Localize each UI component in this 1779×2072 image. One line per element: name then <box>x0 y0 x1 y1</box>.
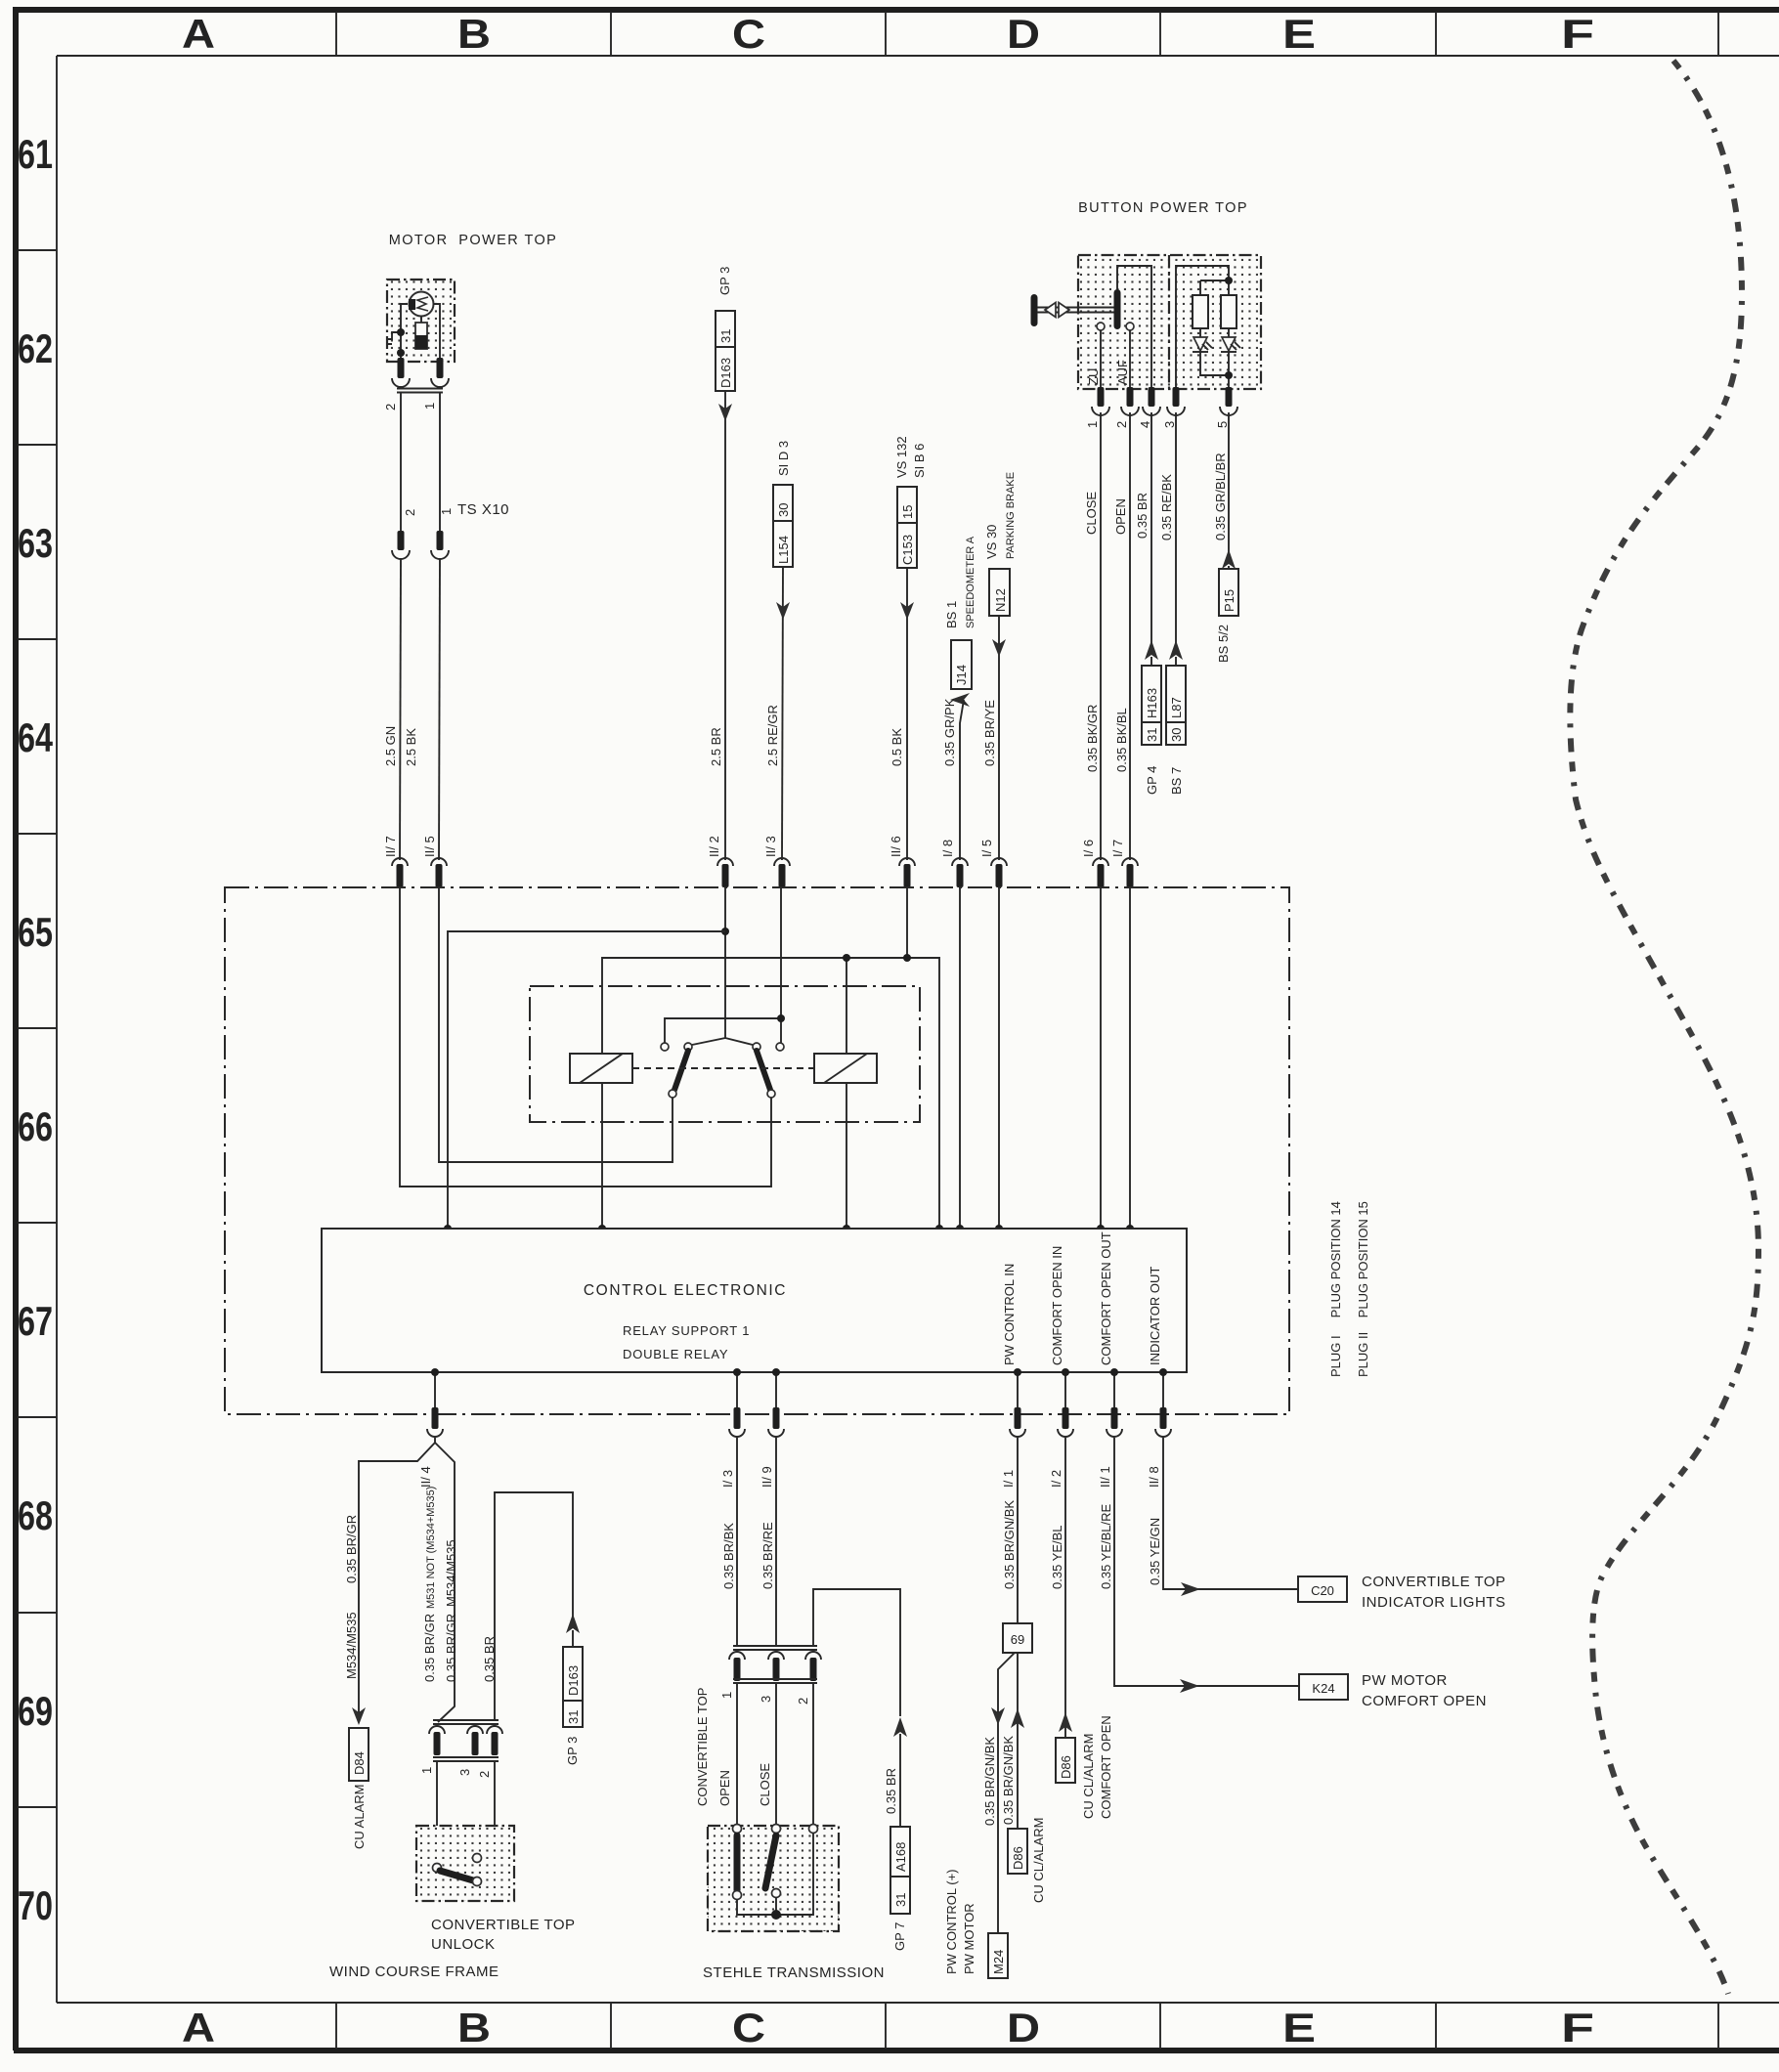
svg-text:68: 68 <box>18 1492 53 1538</box>
unlock cup 2 <box>487 1726 502 1734</box>
relay linkage dashed <box>632 1067 814 1069</box>
connector I/6 cup <box>1093 858 1108 866</box>
svg-text:BS 7: BS 7 <box>1169 767 1184 795</box>
resistor R2 <box>1221 295 1237 328</box>
wire unlock pin2 riser to D163 <box>495 1492 573 1720</box>
stehle transmission switch box <box>708 1826 839 1931</box>
svg-text:2: 2 <box>1114 421 1129 428</box>
LED D2 <box>1222 337 1236 351</box>
button contact AUF circle <box>1126 323 1134 330</box>
motor thermal switch contact <box>387 332 401 344</box>
svg-text:PARKING BRAKE: PARKING BRAKE <box>1005 472 1017 559</box>
svg-text:3: 3 <box>759 1696 773 1703</box>
wire R1 to LED1 <box>1199 328 1201 337</box>
arrow up to P15 <box>1222 549 1236 569</box>
wire II/9 down <box>775 1438 777 1646</box>
svg-text:0.35 GR/BL/BR: 0.35 GR/BL/BR <box>1213 453 1228 540</box>
connector II/2 cup <box>717 858 733 866</box>
stehle blade 1 <box>734 1835 741 1890</box>
svg-text:3: 3 <box>1162 421 1177 428</box>
relay coil K2 <box>814 1054 877 1083</box>
stehle plug bus lower <box>733 1679 817 1683</box>
svg-text:I/ 5: I/ 5 <box>979 840 994 857</box>
TS X10 pin right <box>437 531 444 550</box>
relay blade left <box>674 1051 688 1090</box>
motor M1 symbol <box>410 292 434 317</box>
wire II/2 down to switch commons <box>692 887 753 1045</box>
svg-text:GP 7: GP 7 <box>892 1922 907 1951</box>
svg-text:1: 1 <box>1085 421 1100 428</box>
junction dot I/3 <box>733 1368 741 1376</box>
svg-text:D: D <box>1007 2005 1040 2050</box>
stehle contact circle 1 <box>733 1825 742 1834</box>
svg-text:A: A <box>182 11 215 57</box>
connector box D84 <box>349 1728 369 1781</box>
relay coil K1 <box>570 1054 632 1083</box>
junction dot at electronics top left <box>444 1225 452 1232</box>
led bottom bus <box>1200 352 1229 389</box>
button pin 5 cup <box>1220 407 1237 415</box>
connector II/8 pin <box>1160 1407 1167 1429</box>
wire 2.5 GN down to II/7 <box>400 559 401 860</box>
svg-text:II/ 6: II/ 6 <box>889 836 903 857</box>
wire AUF contact to pin 2 <box>1129 330 1131 389</box>
svg-text:2.5 BK: 2.5 BK <box>404 728 418 766</box>
svg-text:GP 3: GP 3 <box>717 267 732 295</box>
stehle bottom junction dot <box>771 1910 781 1920</box>
wire I/5 to electronics <box>998 887 1000 1229</box>
svg-text:67: 67 <box>18 1298 53 1344</box>
svg-text:RELAY SUPPORT 1: RELAY SUPPORT 1 <box>623 1323 750 1338</box>
svg-text:PLUG II PLUG POSITION 15: PLUG II PLUG POSITION 15 <box>1356 1201 1370 1377</box>
svg-text:2: 2 <box>796 1698 810 1705</box>
svg-text:31: 31 <box>566 1710 581 1724</box>
svg-text:II/ 3: II/ 3 <box>763 836 778 857</box>
wire unlock pin2 into switch <box>481 1761 495 1858</box>
splice box 69 <box>1003 1623 1032 1653</box>
connector II/4 pin <box>432 1407 439 1429</box>
connector box K24 <box>1299 1674 1348 1700</box>
svg-text:WIND COURSE FRAME: WIND COURSE FRAME <box>329 1964 499 1980</box>
svg-text:1: 1 <box>439 508 454 515</box>
connector box L154/30 <box>773 485 793 567</box>
svg-text:0.35 YE/BL/RE: 0.35 YE/BL/RE <box>1099 1503 1113 1589</box>
svg-text:31: 31 <box>718 329 733 343</box>
wire K1 bottom to electronics <box>601 1083 603 1229</box>
wire R2 to LED2 <box>1228 328 1230 337</box>
svg-text:3: 3 <box>457 1769 472 1776</box>
button pin 4 <box>1149 387 1155 407</box>
arrow right on K24 wire <box>1180 1679 1199 1693</box>
wire stehle pin3 into switch <box>775 1683 777 1826</box>
wire II/1 to K24 <box>1114 1438 1299 1686</box>
wire ZU contact to pin 1 <box>1100 330 1102 389</box>
arrow up to L87 <box>1169 640 1183 660</box>
relay contact circle a2 <box>684 1043 692 1051</box>
svg-text:AUF: AUF <box>1115 360 1130 385</box>
convertible top unlock switch box <box>416 1826 514 1901</box>
wire I/1 out <box>1017 1372 1019 1414</box>
svg-text:B: B <box>457 11 491 57</box>
junction dot I/6 <box>1097 1225 1105 1232</box>
svg-text:OPEN: OPEN <box>717 1770 732 1806</box>
svg-text:D84: D84 <box>352 1751 367 1775</box>
wire motor 2 to TS X10 <box>400 392 402 531</box>
junction dot II/8 <box>1159 1368 1167 1376</box>
svg-text:II/ 7: II/ 7 <box>383 836 398 857</box>
svg-text:0.35 BR/YE: 0.35 BR/YE <box>982 700 997 766</box>
wire II/4 split right branch <box>435 1443 455 1722</box>
connector II/9 cup <box>768 1429 784 1437</box>
motor pin 2 cup <box>392 378 410 387</box>
junction dot II/1 <box>1110 1368 1118 1376</box>
led top bus <box>1200 281 1229 295</box>
connector II/7 pin <box>397 864 404 887</box>
wire contact bar to pin 4 <box>1117 266 1151 389</box>
svg-text:VS 30: VS 30 <box>984 525 999 559</box>
svg-text:DOUBLE RELAY: DOUBLE RELAY <box>623 1347 728 1361</box>
svg-text:SI B 6: SI B 6 <box>912 444 927 478</box>
connector II/1 pin <box>1111 1407 1118 1429</box>
footer cell dividers <box>336 2003 1718 2049</box>
stehle contact circle 2 <box>809 1825 818 1834</box>
resistor R1 <box>1193 295 1208 328</box>
connector I/3 cup <box>729 1429 745 1437</box>
stehle contact circle mid <box>772 1889 781 1898</box>
svg-text:F: F <box>1561 2005 1594 2050</box>
junction dot I/7 <box>1126 1225 1134 1232</box>
svg-text:H163: H163 <box>1145 688 1159 718</box>
svg-text:31: 31 <box>1145 728 1159 742</box>
svg-text:CONVERTIBLE TOP: CONVERTIBLE TOP <box>695 1688 710 1806</box>
wire I/3 down <box>736 1438 738 1646</box>
LED D1 <box>1193 337 1207 351</box>
svg-text:4: 4 <box>1138 421 1152 428</box>
motor junction dot lower <box>397 349 405 357</box>
svg-text:0.35 BR/GN/BK: 0.35 BR/GN/BK <box>982 1737 997 1826</box>
connector II/7 cup <box>392 858 408 866</box>
junction dot II/4 <box>431 1368 439 1376</box>
junction dot II/2 <box>721 928 729 935</box>
motor internal wires <box>401 304 440 360</box>
junction dot led top <box>1225 277 1233 284</box>
button power top component box <box>1078 255 1261 389</box>
wire II/5 to left blade lower contact <box>439 887 673 1162</box>
connector I/8 cup <box>952 858 968 866</box>
svg-text:E: E <box>1282 2005 1316 2050</box>
wire stehle pin1 into switch <box>736 1683 738 1826</box>
svg-text:INDICATOR LIGHTS: INDICATOR LIGHTS <box>1362 1594 1505 1611</box>
svg-text:0.35 BK/GR: 0.35 BK/GR <box>1085 705 1100 772</box>
svg-text:TS X10: TS X10 <box>457 501 509 518</box>
svg-text:I/ 3: I/ 3 <box>720 1470 735 1488</box>
wire II/7 to right blade lower contact <box>400 887 771 1187</box>
wire pin3 to L87 <box>1175 412 1177 643</box>
svg-text:0.35 BR: 0.35 BR <box>1135 493 1150 539</box>
motor pin 1 <box>437 358 444 378</box>
svg-text:II/ 4: II/ 4 <box>418 1466 433 1488</box>
svg-text:PLUG I PLUG POSITION 14: PLUG I PLUG POSITION 14 <box>1328 1201 1343 1377</box>
junction dot I/8 <box>956 1225 964 1232</box>
svg-text:30: 30 <box>1169 728 1184 742</box>
unlock plug bus upper <box>433 1720 499 1724</box>
wire motor 1 to TS X10 <box>439 392 441 531</box>
svg-text:0.35 GR/PK: 0.35 GR/PK <box>942 698 957 766</box>
svg-text:D163: D163 <box>566 1665 581 1696</box>
button pin 2 <box>1127 387 1134 407</box>
svg-text:0.35 BR: 0.35 BR <box>884 1768 898 1814</box>
relay blade right <box>757 1051 770 1090</box>
svg-text:II/ 8: II/ 8 <box>1147 1466 1161 1488</box>
svg-text:CLOSE: CLOSE <box>1084 492 1099 535</box>
connector II/5 cup <box>431 858 447 866</box>
connector I/3 pin <box>734 1407 741 1429</box>
wire C153 to II/6 <box>906 568 908 860</box>
tear-off edge curve <box>1570 61 1758 1994</box>
svg-text:1: 1 <box>422 403 437 410</box>
svg-text:CU CL/ALARM: CU CL/ALARM <box>1081 1734 1096 1819</box>
stehle cup 3 <box>768 1652 784 1660</box>
button pin 1 <box>1098 387 1105 407</box>
button contact ZU circle <box>1097 323 1105 330</box>
junction dot II/3 <box>777 1014 785 1022</box>
wire I/2 to D86 <box>1064 1438 1066 1738</box>
svg-text:PW CONTROL IN: PW CONTROL IN <box>1002 1264 1017 1365</box>
svg-text:PW MOTOR: PW MOTOR <box>962 1903 976 1974</box>
button box divider <box>1168 255 1170 389</box>
connector box C153/15 <box>897 487 917 568</box>
TS X10 cup left <box>392 550 410 559</box>
relay contact circle b1 <box>753 1043 760 1051</box>
wire A168 riser <box>813 1589 900 1716</box>
unlock cup 1 <box>429 1726 445 1734</box>
junction dot K1 bottom <box>598 1225 606 1232</box>
connector I/7 cup <box>1122 858 1138 866</box>
unlock plug bus lower <box>433 1757 499 1761</box>
motor plug double line <box>397 389 443 393</box>
connector II/8 cup <box>1155 1429 1171 1437</box>
svg-text:C: C <box>732 11 765 57</box>
svg-text:MOTOR POWER TOP: MOTOR POWER TOP <box>389 233 558 248</box>
wire unlock pin1 into switch <box>436 1761 438 1865</box>
header cell dividers <box>336 12 1718 56</box>
unlock pin 3 <box>472 1732 479 1755</box>
arrow down on D163 wire <box>718 404 732 421</box>
TS X10 pin left <box>398 531 405 550</box>
unlock pin 2 <box>492 1732 499 1755</box>
unlock switch contact 1 circle <box>433 1864 442 1873</box>
connector II/4 cup <box>427 1429 443 1437</box>
relay support outer box <box>225 887 1289 1414</box>
arrow up on D86 wire <box>1011 1708 1024 1728</box>
svg-text:D86: D86 <box>1011 1846 1025 1870</box>
svg-text:CONVERTIBLE TOP: CONVERTIBLE TOP <box>431 1917 576 1933</box>
wire I/8 to electronics <box>959 887 961 1229</box>
svg-text:GP 3: GP 3 <box>565 1737 580 1765</box>
wire K2 top <box>846 958 847 1054</box>
svg-text:66: 66 <box>18 1103 53 1149</box>
svg-text:M534/M535: M534/M535 <box>344 1612 359 1679</box>
wire II/3 to outer contacts <box>665 887 781 1043</box>
unlock cup 3 <box>467 1726 483 1734</box>
svg-text:I/ 6: I/ 6 <box>1081 840 1096 857</box>
svg-text:2: 2 <box>477 1771 492 1778</box>
svg-text:P15: P15 <box>1222 589 1237 612</box>
coil top bus <box>602 958 939 1229</box>
svg-text:31: 31 <box>893 1893 908 1907</box>
svg-text:2: 2 <box>383 404 398 410</box>
svg-text:65: 65 <box>18 909 53 955</box>
connector II/2 pin <box>722 864 729 887</box>
svg-text:BS 5/2: BS 5/2 <box>1216 625 1231 663</box>
motor power top component box <box>387 280 455 362</box>
svg-text:2.5 GN: 2.5 GN <box>383 726 398 766</box>
svg-text:0.35 YE/BL: 0.35 YE/BL <box>1050 1525 1064 1589</box>
junction dot I/5 <box>995 1225 1003 1232</box>
svg-text:L154: L154 <box>776 536 791 564</box>
svg-text:COMFORT OPEN: COMFORT OPEN <box>1362 1693 1487 1709</box>
stehle contact circle 3 <box>772 1825 781 1834</box>
arrow up on I/2 wire <box>1059 1712 1072 1732</box>
svg-text:C: C <box>732 2005 765 2050</box>
wire pin 3 to led top <box>1176 266 1229 389</box>
svg-text:CU CL/ALARM: CU CL/ALARM <box>1031 1818 1046 1903</box>
connector box N12 <box>989 569 1010 616</box>
wire II/1 out <box>1113 1372 1115 1414</box>
connector box D163/31 top <box>716 311 735 391</box>
row dividers <box>18 250 57 1807</box>
svg-text:C20: C20 <box>1311 1583 1334 1598</box>
svg-text:0.35 BR/BK: 0.35 BR/BK <box>721 1523 736 1589</box>
junction dot II/6 <box>903 954 911 962</box>
svg-text:0.35 YE/GN: 0.35 YE/GN <box>1148 1518 1162 1585</box>
svg-text:69: 69 <box>18 1688 53 1734</box>
svg-text:L87: L87 <box>1169 697 1184 718</box>
relay blade right lower circle <box>767 1090 775 1098</box>
svg-text:69: 69 <box>1011 1632 1024 1647</box>
connector box D86 upper <box>1056 1738 1075 1783</box>
button pin 1 cup <box>1092 407 1109 415</box>
connector box J14 <box>951 640 972 689</box>
wire pin4 to H163 <box>1150 412 1152 643</box>
svg-text:M531 NOT (M534+M535): M531 NOT (M534+M535) <box>425 1487 437 1609</box>
wire 69 to D86 <box>1017 1653 1019 1829</box>
button pin 3 <box>1173 387 1180 407</box>
svg-text:UNLOCK: UNLOCK <box>431 1936 496 1953</box>
svg-text:BS 1: BS 1 <box>944 601 959 628</box>
wire 2.5 BK down to II/5 <box>439 559 440 860</box>
svg-text:K24: K24 <box>1312 1681 1334 1696</box>
row label column line <box>56 56 58 2003</box>
relay contact circle b2 <box>776 1043 784 1051</box>
connector box D163/31 bottom <box>563 1647 583 1727</box>
wire L154 to II/3 <box>782 567 783 860</box>
junction dot I/2 <box>1062 1368 1069 1376</box>
svg-text:M534/M535: M534/M535 <box>444 1539 458 1607</box>
connector box A168/31 <box>890 1827 910 1914</box>
wire I/3 out <box>736 1372 738 1414</box>
wire OPEN pin2 to I/7 <box>1129 412 1131 860</box>
connector I/1 cup <box>1010 1429 1025 1437</box>
arrow down on L154 wire <box>776 602 790 620</box>
wire II/9 out <box>775 1372 777 1414</box>
svg-text:1: 1 <box>719 1692 734 1699</box>
svg-text:0.5 BK: 0.5 BK <box>889 728 904 766</box>
svg-text:I/ 8: I/ 8 <box>940 840 955 857</box>
svg-text:SI D 3: SI D 3 <box>776 441 791 476</box>
stehle cup 1 <box>729 1652 745 1660</box>
button pin 5 <box>1226 387 1233 407</box>
connector box P15 <box>1219 569 1238 616</box>
button pin 4 cup <box>1143 407 1160 415</box>
svg-text:C153: C153 <box>900 535 915 565</box>
svg-text:0.35 BK/BL: 0.35 BK/BL <box>1114 708 1129 772</box>
wire I/2 out <box>1064 1372 1066 1414</box>
connector I/2 pin <box>1063 1407 1069 1429</box>
svg-text:SPEEDOMETER A: SPEEDOMETER A <box>965 536 976 628</box>
connector box L87/30 <box>1166 666 1186 745</box>
svg-text:COMFORT OPEN OUT: COMFORT OPEN OUT <box>1099 1231 1113 1365</box>
connector I/5 cup <box>991 858 1007 866</box>
svg-text:15: 15 <box>900 505 915 519</box>
arrow down on N12 wire <box>992 639 1006 657</box>
relay blade left lower circle <box>669 1090 676 1098</box>
svg-text:F: F <box>1561 11 1594 57</box>
connector II/6 pin <box>904 864 911 887</box>
svg-text:E: E <box>1282 11 1316 57</box>
connector I/5 pin <box>996 864 1003 887</box>
stehle blade1 tip circle <box>733 1891 742 1900</box>
unlock switch blade <box>440 1871 473 1880</box>
svg-text:1: 1 <box>419 1767 434 1774</box>
connector I/7 pin <box>1127 864 1134 887</box>
svg-text:I/ 2: I/ 2 <box>1049 1470 1063 1488</box>
svg-text:OPEN: OPEN <box>1113 498 1128 535</box>
svg-text:I/ 1: I/ 1 <box>1001 1470 1016 1488</box>
wire stehle pin2 into switch <box>812 1683 814 1826</box>
arrow up to D163 bottom <box>566 1614 580 1633</box>
junction dot I/1 <box>1014 1368 1021 1376</box>
connector I/6 pin <box>1098 864 1105 887</box>
wire II/8 to C20 <box>1163 1438 1298 1589</box>
junction dot K2 top <box>843 954 850 962</box>
unlock pin 1 <box>434 1732 441 1755</box>
svg-text:CU ALARM: CU ALARM <box>352 1785 367 1849</box>
junction dot coil bus right <box>935 1225 943 1232</box>
arrow up to A168 <box>893 1717 907 1737</box>
svg-text:2.5 RE/GR: 2.5 RE/GR <box>765 705 780 766</box>
svg-text:M24: M24 <box>991 1950 1006 1974</box>
svg-text:BUTTON POWER TOP: BUTTON POWER TOP <box>1078 200 1248 216</box>
svg-text:D86: D86 <box>1059 1755 1073 1779</box>
connector box C20 <box>1298 1576 1347 1602</box>
svg-text:II/ 1: II/ 1 <box>1098 1466 1112 1488</box>
stehle blade 3 <box>765 1835 776 1888</box>
connector II/9 pin <box>773 1407 780 1429</box>
svg-text:0.35 BR/GN/BK: 0.35 BR/GN/BK <box>1001 1736 1016 1825</box>
stehle pin 1 <box>734 1658 741 1681</box>
svg-text:J14: J14 <box>954 665 969 685</box>
footer row separator line <box>57 2002 1779 2004</box>
svg-text:I/ 7: I/ 7 <box>1110 840 1125 857</box>
svg-text:CLOSE: CLOSE <box>758 1763 772 1806</box>
svg-text:PW MOTOR: PW MOTOR <box>1362 1672 1448 1689</box>
TS X10 cup right <box>431 550 449 559</box>
stehle pin 2 <box>810 1658 817 1681</box>
wire I/1 to box 69 <box>1017 1438 1019 1623</box>
stehle cup 2 <box>805 1652 821 1660</box>
junction dot K2 bottom <box>843 1225 850 1232</box>
